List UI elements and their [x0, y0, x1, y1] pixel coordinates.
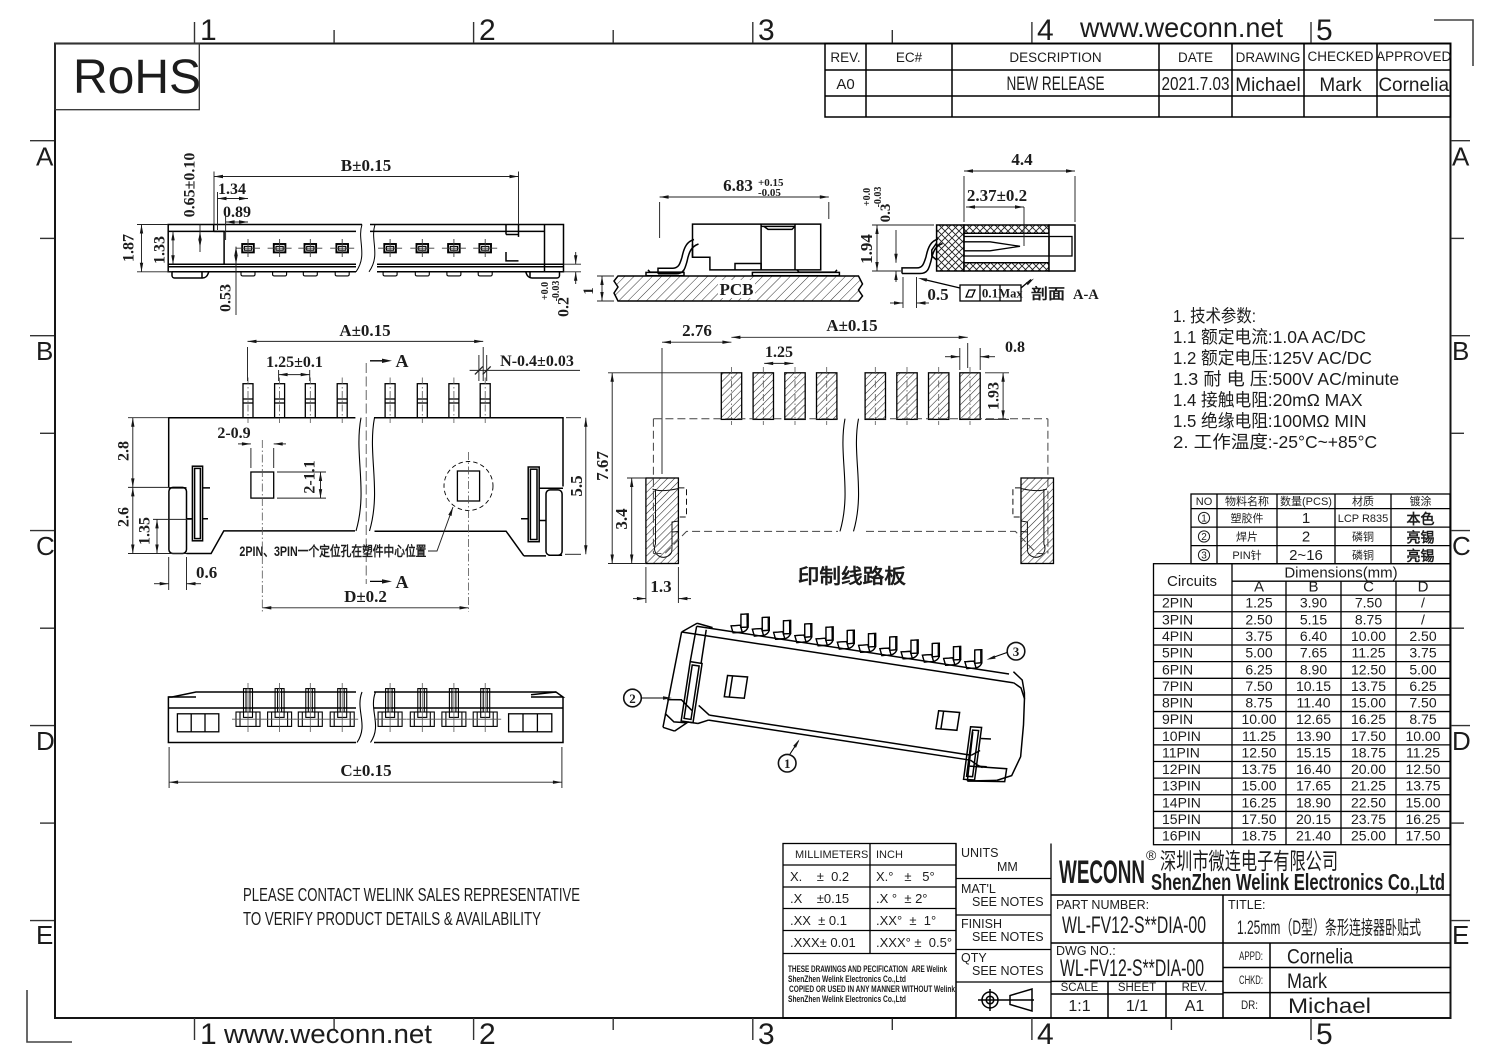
svg-text:E: E — [36, 920, 53, 950]
svg-text:1.33: 1.33 — [152, 236, 169, 264]
zone letters right — [1452, 142, 1471, 951]
svg-text:12.50: 12.50 — [1405, 761, 1440, 777]
svg-text:A: A — [36, 142, 54, 172]
svg-text:2: 2 — [479, 14, 496, 47]
svg-text:Circuits: Circuits — [1167, 573, 1217, 590]
svg-text:2: 2 — [1302, 529, 1310, 546]
zone letters left — [36, 142, 55, 951]
svg-text:1/1: 1/1 — [1126, 998, 1148, 1015]
svg-text:A-A: A-A — [1073, 287, 1099, 303]
svg-text:16.25: 16.25 — [1241, 794, 1276, 810]
svg-text:1.93: 1.93 — [986, 382, 1003, 410]
svg-text:5: 5 — [1316, 14, 1333, 47]
svg-text::-25°C~+85°C: :-25°C~+85°C — [1268, 432, 1377, 452]
svg-text:NEW RELEASE: NEW RELEASE — [1007, 74, 1105, 95]
svg-text:7.67: 7.67 — [593, 451, 612, 481]
svg-text:UNITS: UNITS — [961, 846, 999, 860]
svg-text:11.25: 11.25 — [1242, 728, 1276, 744]
svg-text:20.00: 20.00 — [1351, 761, 1386, 777]
svg-text:APPROVED: APPROVED — [1376, 49, 1451, 64]
dim 1.93 — [985, 373, 1009, 420]
svg-text:1. 技术参数:: 1. 技术参数: — [1173, 306, 1256, 326]
svg-text:1: 1 — [1302, 510, 1310, 527]
dim N-0.4±0.03 — [470, 355, 580, 381]
zone numbers top — [200, 14, 1333, 47]
svg-text:.XXX° ± 0.5°: .XXX° ± 0.5° — [876, 935, 952, 950]
svg-text:7.50: 7.50 — [1409, 695, 1436, 711]
svg-text:15.00: 15.00 — [1351, 695, 1386, 711]
svg-text:13.90: 13.90 — [1296, 728, 1331, 744]
svg-text:A: A — [1452, 142, 1470, 172]
front view body outline — [168, 225, 563, 279]
svg-text:CHECKED: CHECKED — [1307, 49, 1373, 64]
svg-text:A±0.15: A±0.15 — [339, 321, 390, 340]
svg-text:2~16: 2~16 — [1289, 547, 1323, 564]
svg-text:3: 3 — [1201, 551, 1207, 562]
connector side profile — [646, 272, 839, 275]
section body crosshatched — [937, 225, 1075, 271]
section line A-A — [365, 363, 367, 584]
svg-text:.XX° ± 1°: .XX° ± 1° — [876, 913, 936, 928]
svg-text:18.75: 18.75 — [1241, 828, 1276, 844]
svg-text:X. ± 0.2: X. ± 0.2 — [790, 869, 849, 884]
svg-text:-0.03: -0.03 — [551, 281, 562, 302]
svg-text:本色: 本色 — [1407, 511, 1435, 527]
svg-text:2: 2 — [1201, 532, 1207, 543]
svg-text:RoHS: RoHS — [73, 51, 201, 104]
units/matl/finish/qty column — [956, 844, 1051, 1019]
svg-text:1.25: 1.25 — [765, 344, 793, 361]
svg-text:A: A — [1254, 579, 1264, 596]
svg-text:1:1: 1:1 — [1068, 998, 1090, 1015]
svg-text:MAT'L: MAT'L — [961, 882, 996, 896]
svg-text:B±0.15: B±0.15 — [341, 156, 391, 175]
svg-text:4: 4 — [1037, 1018, 1054, 1051]
svg-text:5: 5 — [1316, 1018, 1333, 1051]
svg-text:2.76: 2.76 — [682, 321, 712, 340]
dim 2.6 — [128, 487, 187, 553]
bottom view body — [168, 692, 563, 743]
zone numbers bottom — [200, 1018, 1333, 1051]
svg-text:A0: A0 — [836, 76, 854, 93]
svg-text:0.6: 0.6 — [196, 563, 217, 582]
svg-text:0.65±0.10: 0.65±0.10 — [182, 153, 199, 218]
dim 0.53 — [234, 247, 237, 315]
dim 0.8 — [945, 348, 995, 370]
svg-text:7PIN: 7PIN — [1162, 678, 1193, 694]
svg-text:15.00: 15.00 — [1241, 778, 1276, 794]
svg-text:15.15: 15.15 — [1296, 745, 1331, 761]
svg-text:THESE DRAWINGS AND PECIFICATIO: THESE DRAWINGS AND PECIFICATION ARE Weli… — [788, 964, 948, 974]
svg-text:Mark: Mark — [1319, 75, 1362, 96]
svg-text:DR:: DR: — [1241, 1000, 1258, 1012]
svg-text:1: 1 — [1201, 514, 1207, 525]
svg-text:23.75: 23.75 — [1351, 811, 1386, 827]
svg-text:Michael: Michael — [1235, 75, 1300, 96]
dim 1.3 — [633, 567, 691, 603]
svg-text:Mark: Mark — [1287, 970, 1327, 993]
dim 3.4 — [627, 478, 646, 564]
svg-text:+0.0: +0.0 — [540, 282, 551, 300]
svg-text:+0.0: +0.0 — [862, 188, 873, 206]
plan view top pins — [243, 384, 490, 418]
svg-text:2021.7.03: 2021.7.03 — [1162, 74, 1230, 94]
svg-text:WL-FV12-S**DIA-00: WL-FV12-S**DIA-00 — [1062, 912, 1206, 939]
svg-text:焊片: 焊片 — [1236, 530, 1258, 544]
svg-text:CHKD:: CHKD: — [1239, 975, 1263, 987]
svg-text:3: 3 — [1013, 644, 1020, 659]
tolerance block — [783, 844, 956, 1019]
svg-text:0.53: 0.53 — [218, 284, 235, 312]
projection symbol — [978, 989, 1034, 1011]
svg-text:-0.03: -0.03 — [873, 187, 884, 208]
svg-text:ShenZhen Welink Electronics Co: ShenZhen Welink Electronics Co.,Ltd — [788, 994, 906, 1004]
svg-text:2.50: 2.50 — [1409, 628, 1436, 644]
svg-text:2PIN: 2PIN — [1162, 595, 1193, 611]
svg-text:5PIN: 5PIN — [1162, 645, 1193, 661]
svg-text:WL-FV12-S**DIA-00: WL-FV12-S**DIA-00 — [1060, 955, 1204, 982]
svg-text:3: 3 — [758, 1018, 775, 1051]
svg-text:12PIN: 12PIN — [1162, 761, 1201, 777]
svg-text:20.15: 20.15 — [1296, 811, 1331, 827]
svg-text:1.94: 1.94 — [857, 234, 876, 264]
svg-text:10PIN: 10PIN — [1162, 728, 1201, 744]
svg-text:5.00: 5.00 — [1409, 661, 1436, 677]
trim mark bottom-left — [27, 990, 72, 1042]
dim 2.8 — [128, 418, 169, 488]
dim 1.33 — [171, 231, 174, 264]
svg-text:Michael: Michael — [1288, 995, 1371, 1018]
dim 2-1.1 — [277, 472, 326, 498]
svg-text:13.75: 13.75 — [1351, 678, 1386, 694]
svg-text:12.50: 12.50 — [1351, 661, 1386, 677]
svg-text:8PIN: 8PIN — [1162, 695, 1193, 711]
svg-text:8.75: 8.75 — [1245, 695, 1272, 711]
dim 1.25±0.1 — [279, 370, 310, 381]
BOM table — [1191, 494, 1450, 564]
svg-text:亮锡: 亮锡 — [1407, 530, 1435, 546]
svg-text:17.50: 17.50 — [1351, 728, 1386, 744]
svg-text:数量(PCS): 数量(PCS) — [1280, 495, 1332, 508]
dim 2-0.9 — [238, 442, 286, 468]
svg-text:17.50: 17.50 — [1241, 811, 1276, 827]
dim 5.5 — [565, 418, 588, 555]
svg-text:PLEASE CONTACT WELINK SALES RE: PLEASE CONTACT WELINK SALES REPRESENTATI… — [243, 884, 580, 905]
svg-text:A: A — [396, 351, 409, 371]
svg-text:10.00: 10.00 — [1351, 628, 1386, 644]
svg-text:8.75: 8.75 — [1409, 711, 1436, 727]
svg-text:APPD:: APPD: — [1239, 951, 1263, 963]
svg-text:13.75: 13.75 — [1241, 761, 1276, 777]
svg-text:2: 2 — [629, 691, 636, 706]
dim 6.83 — [660, 195, 829, 238]
svg-text:INCH: INCH — [876, 849, 903, 861]
isometric connector body — [662, 604, 1036, 789]
svg-text:/: / — [1421, 595, 1425, 611]
svg-text:DRAWING: DRAWING — [1236, 50, 1301, 65]
svg-text:www.weconn.net: www.weconn.net — [223, 1019, 433, 1049]
svg-text:17.65: 17.65 — [1296, 778, 1331, 794]
section solder tab — [902, 239, 943, 274]
PCB label — [718, 280, 755, 298]
svg-text::100MΩ MIN: :100MΩ MIN — [1268, 411, 1367, 431]
svg-text:11.40: 11.40 — [1297, 695, 1331, 711]
svg-text:PART NUMBER:: PART NUMBER: — [1056, 898, 1149, 912]
svg-text:6.83: 6.83 — [723, 176, 753, 195]
dim 7.67 — [608, 373, 721, 564]
svg-text:7.50: 7.50 — [1245, 678, 1272, 694]
dim 2.37±0.2 — [966, 205, 1024, 246]
bottom view pins and tabs — [236, 689, 497, 727]
svg-text:13PIN: 13PIN — [1162, 778, 1201, 794]
svg-text:1.5 绝缘电阻: 1.5 绝缘电阻 — [1173, 411, 1268, 431]
dim 0.5 — [890, 277, 929, 308]
svg-text:磷铜: 磷铜 — [1352, 548, 1374, 562]
svg-text:Cornelia: Cornelia — [1378, 75, 1449, 96]
svg-text:7.65: 7.65 — [1300, 645, 1327, 661]
svg-text:16.25: 16.25 — [1351, 711, 1386, 727]
svg-text:NO: NO — [1196, 496, 1213, 508]
svg-text:18.75: 18.75 — [1351, 745, 1386, 761]
dim 1 pcb thickness — [597, 276, 614, 301]
pcb layout left tab pad — [646, 478, 679, 564]
svg-text:www.weconn.net: www.weconn.net — [1079, 12, 1283, 43]
svg-text:A: A — [396, 572, 409, 592]
svg-text:WECONN: WECONN — [1059, 854, 1145, 890]
plan view break lines — [356, 418, 375, 531]
svg-text:.X ° ± 2°: .X ° ± 2° — [876, 891, 928, 906]
svg-text:2.8: 2.8 — [116, 441, 133, 461]
svg-text:1.4 接触电阻: 1.4 接触电阻 — [1173, 390, 1268, 410]
svg-text:X.° ± 5°: X.° ± 5° — [876, 869, 935, 884]
svg-text:2. 工作温度: 2. 工作温度 — [1173, 432, 1268, 452]
svg-text:16PIN: 16PIN — [1162, 828, 1201, 844]
svg-text:3.75: 3.75 — [1245, 628, 1272, 644]
svg-text:7.50: 7.50 — [1355, 595, 1382, 611]
svg-text:REV.: REV. — [830, 50, 860, 65]
svg-text:SHEET: SHEET — [1118, 982, 1156, 994]
dim 0.3 — [894, 230, 897, 282]
svg-text:10.00: 10.00 — [1241, 711, 1276, 727]
svg-text:17.50: 17.50 — [1405, 828, 1440, 844]
dim 2.76 — [662, 341, 731, 475]
dim B±0.15 — [214, 172, 519, 225]
svg-text:5.5: 5.5 — [567, 475, 586, 496]
zone ticks bottom — [195, 1018, 1312, 1040]
svg-text:3.4: 3.4 — [612, 508, 631, 530]
svg-text:3PIN: 3PIN — [1162, 611, 1193, 627]
dim C±0.15 — [169, 747, 562, 788]
svg-text:18.90: 18.90 — [1296, 794, 1331, 810]
svg-text:SEE NOTES: SEE NOTES — [972, 964, 1044, 978]
svg-text:1.25: 1.25 — [1245, 595, 1272, 611]
svg-text::125V AC/DC: :125V AC/DC — [1268, 348, 1372, 368]
dim 4.4 — [964, 169, 1075, 222]
svg-text:QTY: QTY — [961, 951, 987, 965]
svg-text:塑胶件: 塑胶件 — [1231, 511, 1264, 525]
svg-text:SEE NOTES: SEE NOTES — [972, 895, 1044, 909]
svg-text:0.5: 0.5 — [927, 285, 948, 304]
svg-text:22.50: 22.50 — [1351, 794, 1386, 810]
front view pins — [242, 244, 491, 252]
svg-text:FINISH: FINISH — [961, 917, 1002, 931]
svg-text:.X ±0.15: .X ±0.15 — [790, 891, 849, 906]
dim 0.65±0.10 — [198, 225, 201, 253]
svg-text:15.00: 15.00 — [1405, 794, 1440, 810]
pcb layout dashed outline — [653, 419, 1048, 554]
svg-text:3.75: 3.75 — [1409, 645, 1436, 661]
company block — [1051, 895, 1451, 1018]
svg-text:1.35: 1.35 — [137, 517, 154, 545]
dim 0.89 — [226, 216, 248, 240]
svg-text:5.00: 5.00 — [1245, 645, 1272, 661]
svg-text:DATE: DATE — [1178, 50, 1213, 65]
svg-text:15PIN: 15PIN — [1162, 811, 1201, 827]
svg-text:C: C — [1452, 531, 1471, 561]
svg-text:0.89: 0.89 — [223, 204, 251, 221]
svg-text:3.90: 3.90 — [1300, 595, 1327, 611]
trim mark top-right — [1434, 20, 1473, 66]
solder tab hook left — [658, 240, 699, 274]
svg-text:1: 1 — [200, 1018, 217, 1051]
dim A±0.15 (plan) — [248, 340, 484, 381]
zone ticks top — [195, 22, 1312, 43]
svg-text:REV.: REV. — [1182, 982, 1208, 994]
dim D±0.2 — [262, 606, 468, 609]
svg-text:MILLIMETERS: MILLIMETERS — [795, 849, 868, 861]
svg-text:1.1 额定电流: 1.1 额定电流 — [1173, 327, 1268, 347]
section arrow bottom — [370, 580, 387, 582]
bottom view cell cutouts — [177, 714, 551, 732]
svg-text::500V AC/minute: :500V AC/minute — [1268, 369, 1399, 389]
svg-text:ShenZhen Welink Electronics Co: ShenZhen Welink Electronics Co.,Ltd — [788, 974, 906, 984]
svg-text:10.15: 10.15 — [1296, 678, 1331, 694]
svg-text:A1: A1 — [1185, 998, 1205, 1015]
svg-text:Max: Max — [998, 287, 1023, 301]
svg-text:1: 1 — [200, 14, 217, 47]
plan view positioning holes — [251, 462, 493, 511]
svg-text:21.25: 21.25 — [1351, 778, 1386, 794]
dim 1.25 (layout) — [764, 362, 793, 365]
svg-text:4PIN: 4PIN — [1162, 628, 1193, 644]
svg-text:3: 3 — [758, 14, 775, 47]
svg-text:1.25±0.1: 1.25±0.1 — [266, 354, 323, 371]
svg-text:1.3 耐 电 压: 1.3 耐 电 压 — [1173, 369, 1268, 389]
svg-text:1.34: 1.34 — [218, 181, 246, 198]
front view bottom tabs — [241, 272, 492, 276]
svg-text:12.50: 12.50 — [1241, 745, 1276, 761]
svg-text:10.00: 10.00 — [1405, 728, 1440, 744]
svg-text:1: 1 — [784, 756, 791, 771]
svg-text:14PIN: 14PIN — [1162, 794, 1201, 810]
svg-text:.XX ± 0.1: .XX ± 0.1 — [790, 913, 847, 928]
svg-text:®: ® — [1146, 847, 1157, 863]
balloon 1 — [778, 754, 796, 772]
svg-text:N-0.4±0.03: N-0.4±0.03 — [500, 353, 574, 370]
svg-text:C: C — [1363, 579, 1374, 596]
svg-text:印制线路板: 印制线路板 — [798, 564, 907, 588]
svg-text:11.25: 11.25 — [1406, 745, 1440, 761]
svg-text:2.6: 2.6 — [116, 507, 133, 527]
svg-text:0.1: 0.1 — [982, 286, 998, 301]
svg-text:B: B — [36, 336, 53, 366]
svg-text:TO VERIFY PRODUCT DETAILS & AV: TO VERIFY PRODUCT DETAILS & AVAILABILITY — [243, 908, 541, 929]
dim 1.87 — [137, 225, 172, 272]
zone ticks right — [1451, 141, 1470, 921]
pcb bar hatched — [614, 276, 863, 301]
svg-text:A±0.15: A±0.15 — [826, 316, 877, 335]
svg-text:D: D — [1418, 579, 1429, 596]
svg-text:11PIN: 11PIN — [1162, 745, 1200, 761]
svg-text:-0.05: -0.05 — [758, 187, 781, 199]
svg-text:2PIN、3PIN一个定位孔在塑件中心位置: 2PIN、3PIN一个定位孔在塑件中心位置 — [239, 543, 426, 559]
svg-text:21.40: 21.40 — [1296, 828, 1331, 844]
pcb layout break curves — [840, 419, 859, 532]
svg-text:镀涂: 镀涂 — [1410, 494, 1432, 508]
svg-text:4: 4 — [1037, 14, 1054, 47]
svg-text:B: B — [1308, 579, 1318, 596]
svg-text:16.25: 16.25 — [1405, 811, 1440, 827]
pcb layout pin pads — [721, 373, 980, 420]
svg-text:4.4: 4.4 — [1011, 150, 1033, 169]
svg-text::20mΩ MAX: :20mΩ MAX — [1268, 390, 1363, 410]
svg-text:PCB: PCB — [720, 280, 754, 299]
svg-text::1.0A AC/DC: :1.0A AC/DC — [1268, 327, 1366, 347]
revision table — [825, 44, 1451, 118]
svg-text:B: B — [1452, 336, 1469, 366]
dim 0.2 +0.0/-0.03 right — [564, 252, 582, 284]
svg-text:LCP R835: LCP R835 — [1338, 513, 1389, 525]
svg-text:材质: 材质 — [1352, 494, 1374, 508]
pcb layout right tab pad — [1021, 478, 1054, 564]
section contact pin — [964, 237, 1072, 257]
svg-text:SEE NOTES: SEE NOTES — [972, 930, 1044, 944]
svg-text:2.37±0.2: 2.37±0.2 — [967, 186, 1027, 205]
svg-text:2.50: 2.50 — [1245, 611, 1272, 627]
svg-text:12.65: 12.65 — [1296, 711, 1331, 727]
svg-text:物料名称: 物料名称 — [1225, 494, 1269, 508]
svg-text:9PIN: 9PIN — [1162, 711, 1193, 727]
svg-text:6.25: 6.25 — [1245, 661, 1272, 677]
svg-text:.XXX± 0.01: .XXX± 0.01 — [790, 935, 856, 950]
svg-text:Dimensions(mm): Dimensions(mm) — [1284, 565, 1397, 582]
dim 1.34 — [218, 192, 249, 230]
svg-text:8.90: 8.90 — [1300, 661, 1327, 677]
svg-text:剖面: 剖面 — [1031, 285, 1065, 303]
svg-text:PIN针: PIN针 — [1232, 548, 1261, 562]
svg-text:EC#: EC# — [896, 50, 923, 65]
hole centerlines — [262, 440, 468, 612]
svg-text:磷铜: 磷铜 — [1352, 530, 1374, 544]
svg-text:2-1.1: 2-1.1 — [302, 460, 319, 493]
svg-text:COPIED OR USED IN ANY MANNER W: COPIED OR USED IN ANY MANNER WITHOUT Wel… — [789, 984, 956, 994]
svg-text:Cornelia: Cornelia — [1287, 946, 1353, 969]
svg-text:2: 2 — [479, 1018, 496, 1051]
flatness control frame — [922, 279, 1031, 301]
svg-text:C: C — [36, 531, 55, 561]
dimensions table — [1154, 564, 1451, 845]
dim 0.6 — [154, 557, 201, 590]
dim 1.35 — [153, 519, 192, 553]
svg-text:SCALE: SCALE — [1061, 982, 1099, 994]
svg-text:ShenZhen Welink Electronics Co: ShenZhen Welink Electronics Co.,Ltd — [1151, 869, 1445, 895]
balloon 2 — [624, 689, 642, 707]
svg-text:DESCRIPTION: DESCRIPTION — [1009, 50, 1101, 65]
technical notes — [1173, 306, 1399, 452]
svg-text:2-0.9: 2-0.9 — [217, 425, 250, 442]
svg-text:1.3: 1.3 — [650, 577, 671, 596]
RoHS box — [55, 44, 199, 110]
